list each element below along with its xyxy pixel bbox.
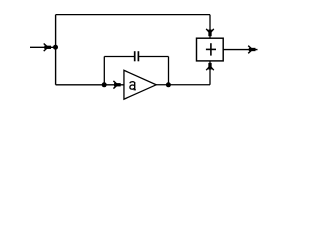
node: amplifier output junction xyxy=(166,82,171,87)
wire: amplifier output xyxy=(156,84,210,86)
wire: drop into summer top xyxy=(209,15,211,38)
wire: up into summer bottom xyxy=(209,61,211,85)
node: amplifier input junction xyxy=(102,82,107,87)
wire: left vertical xyxy=(55,15,57,85)
arrow: into summer top xyxy=(206,29,214,36)
plus sign xyxy=(206,43,216,55)
wire: capacitor loop top right xyxy=(139,56,169,58)
wire: bottom rail xyxy=(56,84,124,86)
capacitor C plates xyxy=(135,51,139,61)
node: input junction xyxy=(53,45,58,50)
arrow: into amplifier xyxy=(113,81,120,89)
wire: capacitor loop right vertical xyxy=(168,57,170,85)
wire: top feedforward rail xyxy=(56,14,210,16)
summer box xyxy=(197,38,224,61)
wire: capacitor loop top left xyxy=(104,56,134,58)
wire: capacitor loop left vertical xyxy=(103,57,105,85)
arrow: input direction xyxy=(44,44,51,52)
wire: output lead xyxy=(223,49,257,51)
arrow: into summer bottom xyxy=(206,63,214,70)
wire: input lead xyxy=(30,46,54,48)
arrow: output xyxy=(248,46,255,54)
label a xyxy=(130,82,136,90)
amplifier a (triangle) xyxy=(124,70,156,99)
